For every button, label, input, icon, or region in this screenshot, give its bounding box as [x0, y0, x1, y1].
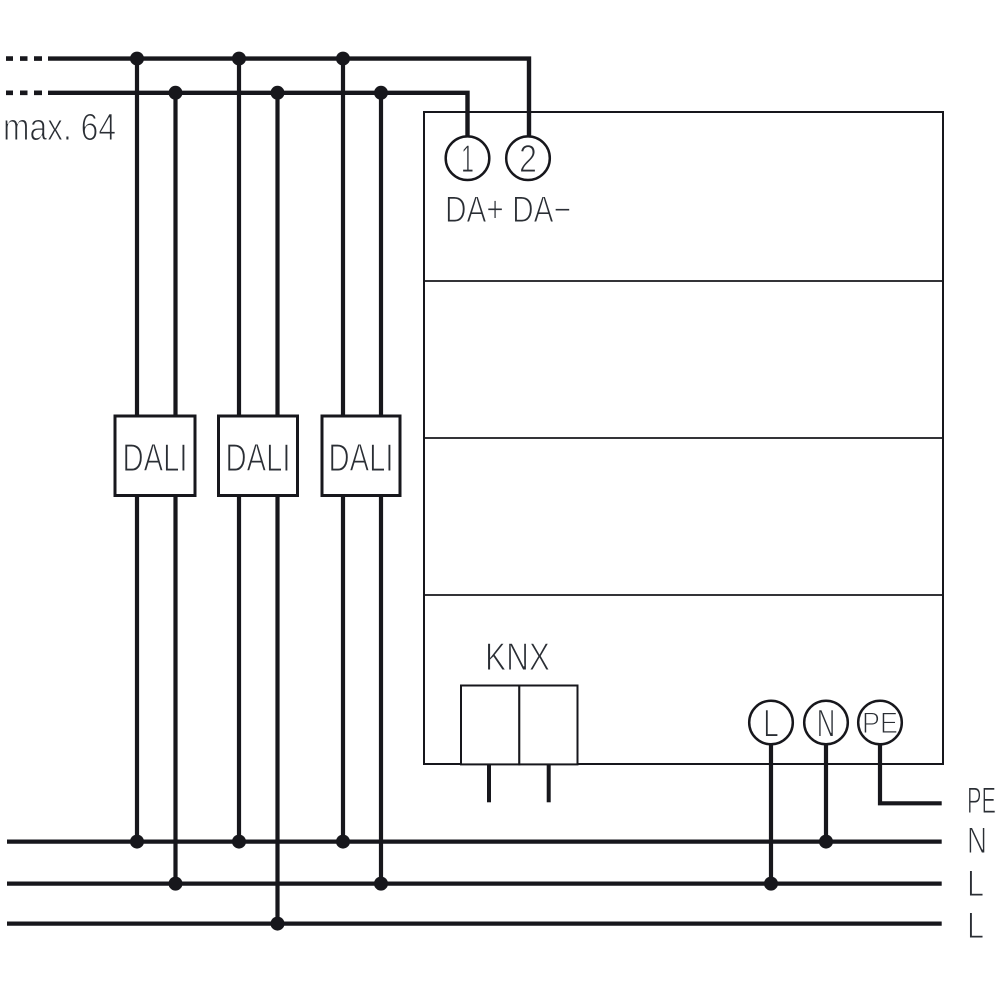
- svg-text:L: L: [763, 703, 779, 746]
- junction L line / terminal L: [764, 877, 778, 891]
- terminal PE circle: [858, 701, 902, 745]
- junction bus DA- / ballast 3: [336, 52, 350, 66]
- wire ballast 2 to second L line: [275, 495, 279, 924]
- wire ballast 1 to N line: [135, 495, 139, 842]
- wire mains L line: [7, 881, 942, 885]
- svg-text:KNX: KNX: [485, 636, 550, 679]
- wire ballast 2 neutral drop (top): [237, 59, 241, 416]
- wire ballast 3 phase drop (top): [379, 93, 383, 416]
- device divider 3: [424, 594, 943, 596]
- junction bus DA- / ballast 1: [130, 52, 144, 66]
- svg-text:2: 2: [519, 138, 537, 181]
- svg-text:PE: PE: [862, 707, 898, 740]
- device divider 2: [424, 437, 943, 439]
- ballast box DALI 3: [322, 416, 400, 496]
- svg-text:PE: PE: [967, 780, 996, 821]
- svg-text:L: L: [967, 905, 984, 946]
- junction bus DA+ / ballast 3: [374, 86, 388, 100]
- svg-text:max. 64: max. 64: [3, 107, 116, 149]
- wire KNX connector pin 2: [547, 764, 551, 802]
- wire ballast 1 neutral drop (top): [135, 59, 139, 416]
- ballast box DALI 2: [219, 416, 298, 496]
- terminal L circle: [749, 701, 793, 745]
- wire KNX connector pin 1: [487, 764, 491, 802]
- KNX connector box right cell: [519, 686, 577, 765]
- svg-text:L: L: [967, 863, 984, 904]
- wire terminal PE with corner to PE stub: [880, 744, 942, 803]
- terminal 1 circle: [446, 136, 490, 180]
- wire mains N line: [7, 839, 942, 843]
- junction bus DA- / ballast 2: [232, 52, 246, 66]
- wire DALI bus DA- (top) with corner down to terminal 2: [48, 59, 529, 137]
- wire ballast 2 to N line: [237, 495, 241, 842]
- junction second L line / ballast 2: [271, 917, 285, 931]
- svg-text:1: 1: [461, 138, 474, 181]
- svg-text:N: N: [817, 703, 836, 746]
- wire mains second L line: [7, 921, 942, 925]
- junction L line / ballast 1: [169, 877, 183, 891]
- wire terminal L to L line: [769, 744, 773, 883]
- junction N line / terminal N: [819, 835, 833, 849]
- junction bus DA+ / ballast 2: [271, 86, 285, 100]
- svg-text:N: N: [967, 820, 987, 861]
- wire ballast 3 to N line: [341, 495, 345, 842]
- wire DALI bus DA- dashed continuation: [6, 56, 42, 61]
- KNX connector box left cell: [461, 686, 519, 765]
- svg-text:DALI: DALI: [329, 437, 394, 480]
- terminal 2 circle: [506, 136, 550, 180]
- junction N line / ballast 3: [336, 835, 350, 849]
- device divider 1: [424, 280, 943, 282]
- junction N line / ballast 2: [232, 835, 246, 849]
- ballast box DALI 1: [115, 416, 195, 496]
- junction L line / ballast 3: [374, 877, 388, 891]
- wire ballast 2 phase drop (top): [275, 93, 279, 416]
- wire terminal N to N line: [824, 744, 828, 841]
- wire ballast 3 neutral drop (top): [341, 59, 345, 416]
- svg-text:DALI: DALI: [123, 437, 188, 480]
- wire ballast 3 to L line: [379, 495, 383, 884]
- svg-text:DA+ DA−: DA+ DA−: [445, 189, 571, 230]
- terminal N circle: [804, 701, 848, 745]
- junction N line / ballast 1: [130, 835, 144, 849]
- junction bus DA+ / ballast 1: [169, 86, 183, 100]
- device box U1 KNX-DALI gateway: [424, 112, 943, 764]
- wire ballast 1 to L line: [173, 495, 177, 884]
- wire ballast 1 phase drop (top): [173, 93, 177, 416]
- wire DALI bus DA+ (second) with corner down to terminal 1: [48, 93, 468, 137]
- svg-text:DALI: DALI: [226, 437, 291, 480]
- wire DALI bus DA+ dashed continuation: [6, 91, 42, 96]
